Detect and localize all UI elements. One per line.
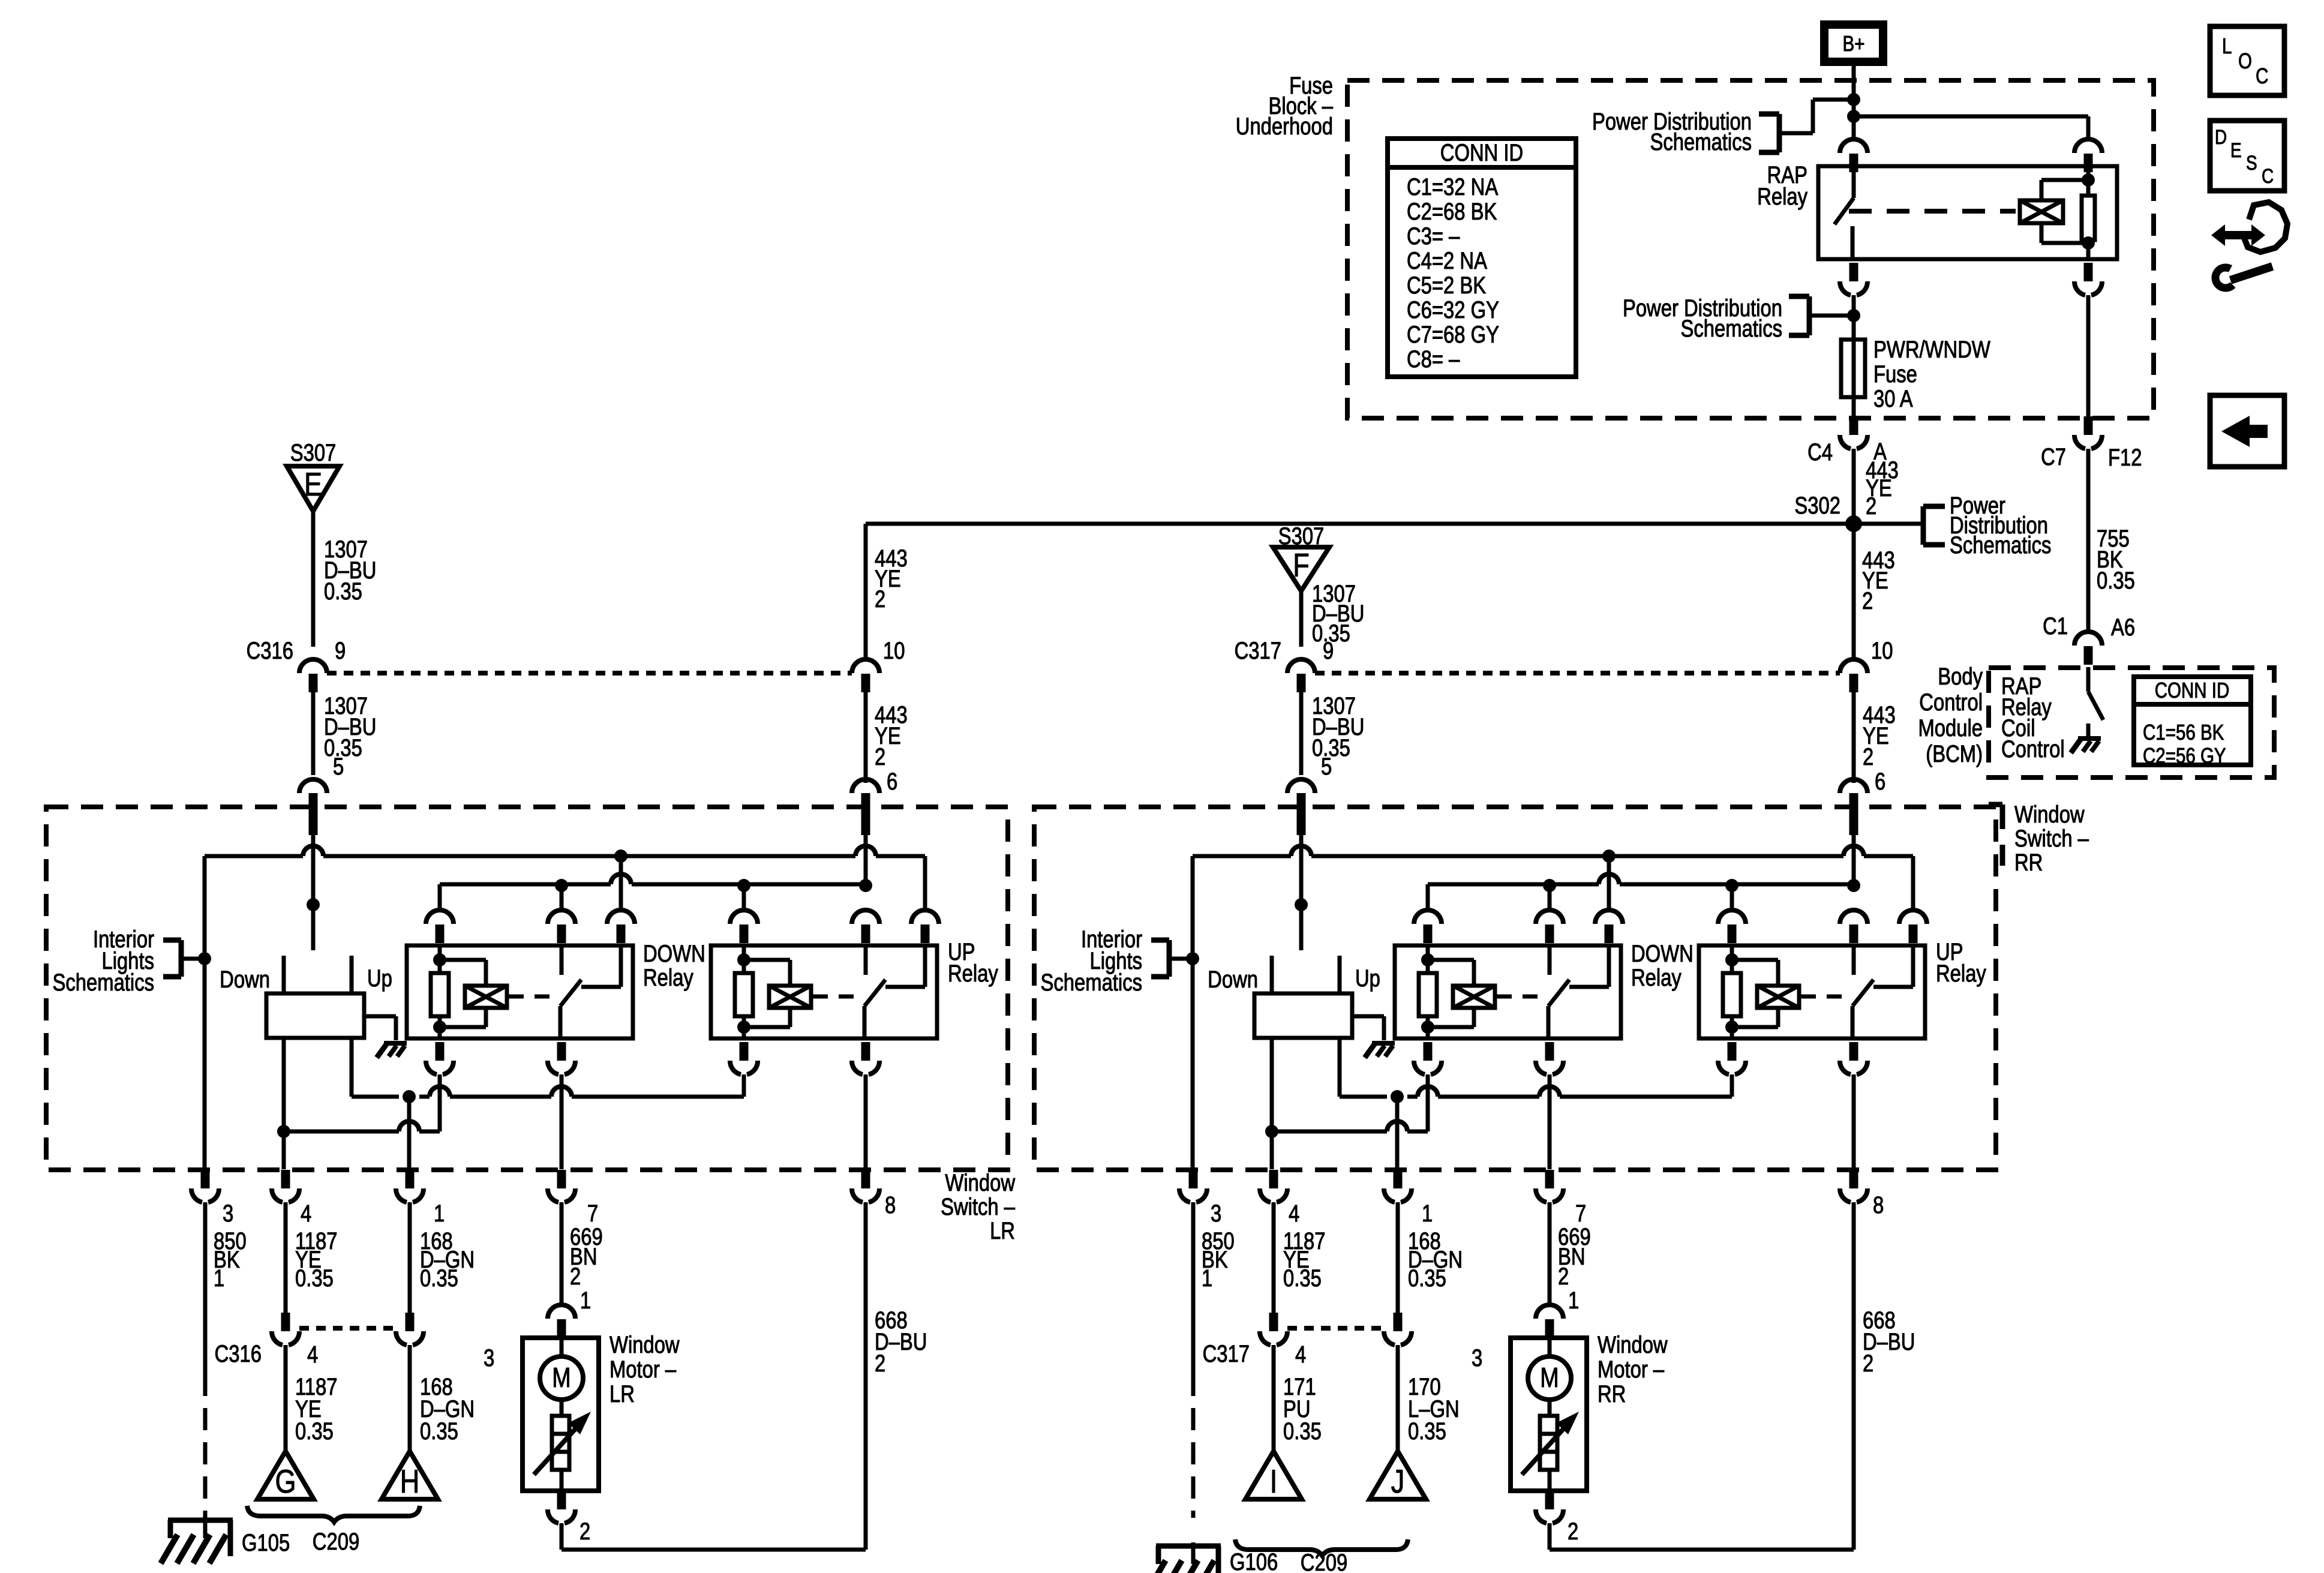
svg-text:A6: A6 — [2111, 614, 2135, 641]
svg-text:C2=68 BK: C2=68 BK — [1407, 198, 1497, 225]
wire: DOWN relay switch to pin 7 — [560, 1074, 564, 1169]
ground (rocker) — [384, 1041, 407, 1046]
rocker actuator — [1254, 993, 1352, 1038]
svg-text:2: 2 — [580, 1518, 590, 1545]
svg-text:Relay: Relay — [1757, 183, 1807, 210]
junction — [1421, 953, 1434, 966]
connector: UP relay switch pin (bottom) — [861, 1042, 870, 1061]
svg-text:Window: Window — [945, 1169, 1015, 1196]
RAP relay resistor — [2082, 196, 2095, 240]
switch contact: Up — [350, 956, 354, 993]
wire: power distribution tap — [1811, 100, 1815, 133]
crossover (no connection) — [399, 1121, 419, 1131]
wire 1307 D-BU — [1299, 692, 1304, 775]
wire to UP relay switch pin — [1911, 856, 1915, 910]
svg-text:2: 2 — [1863, 743, 1873, 770]
UP relay box — [711, 945, 937, 1038]
svg-text:1: 1 — [580, 1287, 591, 1314]
motor box — [523, 1338, 599, 1491]
motor armature M — [1528, 1356, 1571, 1400]
crossover (no connection) — [611, 874, 631, 884]
svg-text:L: L — [2222, 34, 2232, 58]
window switch - LR (dashed outline) — [46, 807, 1008, 1170]
svg-text:C: C — [2262, 164, 2274, 187]
svg-text:E: E — [2230, 139, 2242, 161]
connector: UP relay contact pin (top) — [1907, 909, 1919, 912]
svg-text:C4=2 NA: C4=2 NA — [1407, 247, 1487, 274]
junction — [433, 1020, 446, 1034]
junction — [277, 1125, 290, 1138]
splice S307 triangle F — [1273, 547, 1329, 591]
connector: DOWN relay coil pin (top) — [1422, 909, 1434, 912]
wire S302 to window switches (443 YE) — [866, 522, 1854, 526]
RAP relay box — [1818, 166, 2117, 259]
wire 1187 YE — [1272, 1202, 1276, 1313]
wire: UP relay switch to pin 8 — [864, 1074, 868, 1169]
connector C316 pin 10 — [860, 658, 872, 662]
svg-text:Module: Module — [1918, 715, 1983, 742]
svg-text:C3= –: C3= – — [1407, 223, 1460, 250]
connector: UP relay coil pin (top) — [1726, 909, 1738, 912]
splice S302 — [1845, 515, 1862, 532]
DOWN relay actuator (dashed) — [1497, 995, 1546, 999]
wire: ground leg (interior lights) — [203, 856, 207, 1169]
svg-text:C4: C4 — [1807, 439, 1833, 466]
crossover (no connection) — [1599, 874, 1619, 884]
crossover (no connection) — [1418, 1086, 1438, 1097]
connector C316 pin 9 — [307, 658, 319, 662]
junction — [1295, 898, 1308, 911]
connector C1 pin A6 (BCM) — [2082, 631, 2094, 634]
junction — [1391, 1090, 1404, 1103]
icon: navigation arrows — [2211, 224, 2265, 246]
connector pin 1 (window switch LR) — [406, 1170, 415, 1188]
bracket to power distribution schematics — [1777, 114, 1782, 152]
svg-text:LR: LR — [609, 1380, 635, 1407]
UP relay box — [1699, 945, 1925, 1038]
svg-text:Schematics: Schematics — [53, 969, 154, 996]
crossover (no connection) — [430, 1086, 450, 1097]
svg-text:3: 3 — [1211, 1200, 1221, 1227]
DOWN relay switch — [1548, 945, 1552, 975]
wire S302 to power distribution — [1854, 522, 1923, 526]
BCM dashed box (RAP relay coil control) — [1989, 668, 2274, 778]
junction — [1847, 93, 1860, 106]
fuse PWR/WNDW 30 A — [1841, 340, 1865, 397]
svg-text:C317: C317 — [1203, 1340, 1250, 1367]
crossover (no connection) — [1387, 1121, 1407, 1131]
connector C317 boundary (dotted) — [1315, 671, 1840, 676]
connector ID table (fuse block) — [1388, 139, 1576, 377]
connector C209 brace — [247, 1506, 420, 1522]
svg-text:1: 1 — [1568, 1287, 1579, 1314]
svg-text:H: H — [400, 1463, 420, 1500]
svg-text:Schematics: Schematics — [1950, 532, 2051, 559]
svg-text:10: 10 — [883, 637, 905, 664]
svg-text:C: C — [2256, 64, 2268, 88]
svg-text:0.35: 0.35 — [1408, 1418, 1446, 1445]
junction — [1265, 1125, 1278, 1138]
svg-text:DOWN: DOWN — [643, 940, 705, 967]
crossover (no connection) — [1843, 846, 1864, 856]
svg-text:2: 2 — [1863, 1350, 1873, 1377]
junction — [1186, 952, 1199, 965]
svg-text:0.35: 0.35 — [295, 1265, 334, 1292]
svg-text:1: 1 — [1422, 1200, 1433, 1227]
connector pin (RAP relay 30) — [1848, 138, 1860, 142]
connector C4 pin A — [1849, 416, 1858, 435]
wire: relay coil feed bus — [440, 882, 611, 887]
connector: UP relay switch pin (bottom) — [1849, 1042, 1858, 1061]
wire rocker to ground — [1352, 1014, 1384, 1019]
splice S307 triangle E — [287, 466, 340, 511]
connector: motor pin 1 — [556, 1304, 568, 1307]
svg-text:Window: Window — [1598, 1331, 1668, 1358]
ground (rocker) — [1372, 1041, 1395, 1046]
svg-text:Down: Down — [220, 966, 270, 993]
connector: DOWN relay switch pin (top) — [1544, 909, 1556, 912]
svg-text:S307: S307 — [290, 439, 337, 466]
DOWN relay coil (solenoid) — [1453, 986, 1495, 1008]
svg-text:M: M — [552, 1362, 571, 1392]
wire: Up leg — [350, 1038, 354, 1097]
DOWN relay box — [407, 945, 633, 1038]
connector pin (RAP relay 87) — [1849, 263, 1858, 281]
wire 850 BK (existing, dashed) — [1191, 1374, 1196, 1518]
connector: DOWN relay switch pin (bottom) — [557, 1042, 566, 1061]
UP relay resistor — [735, 973, 753, 1016]
wire to splice — [408, 1345, 412, 1451]
connector pin 3 (window switch LR) — [201, 1170, 210, 1188]
svg-text:PWR/WNDW: PWR/WNDW — [1873, 336, 1990, 363]
junction — [1847, 110, 1860, 123]
connector: DOWN relay coil pin (top) — [434, 909, 446, 912]
UP relay actuator (dashed) — [813, 995, 862, 999]
bracket to interior lights schematics — [179, 940, 184, 977]
svg-text:C1: C1 — [2043, 613, 2068, 640]
svg-text:0.35: 0.35 — [295, 1418, 334, 1445]
UP relay coil (solenoid) — [1757, 986, 1799, 1008]
RAP relay switch — [1852, 166, 1856, 198]
svg-text:LR: LR — [990, 1217, 1015, 1244]
icon: wrench — [2230, 266, 2272, 280]
svg-text:E: E — [304, 466, 322, 503]
svg-text:9: 9 — [1323, 637, 1334, 664]
junction — [1725, 879, 1739, 892]
connector: DOWN relay contact pin (top) — [1603, 909, 1615, 912]
wire 669 BN to motor — [1548, 1202, 1552, 1305]
svg-text:C209: C209 — [313, 1528, 359, 1555]
wire pin6 to relay bus — [1852, 835, 1856, 884]
svg-text:4: 4 — [307, 1341, 318, 1368]
connector: motor pin 2 — [557, 1491, 566, 1509]
svg-text:0.35: 0.35 — [2097, 567, 2135, 594]
wire 669 BN to motor — [560, 1202, 564, 1305]
crossover (no connection) — [1291, 846, 1311, 856]
pin 6 terminal — [1849, 793, 1858, 835]
junction — [2082, 236, 2095, 250]
connector C317 pin 3 terminal — [1394, 1313, 1403, 1329]
connector: motor pin 1 — [1544, 1304, 1556, 1307]
svg-text:4: 4 — [1289, 1200, 1299, 1227]
wire 443 YE — [1852, 692, 1856, 783]
crossover (no connection) — [551, 1086, 572, 1097]
wire RAP relay 85 to C7 — [2086, 295, 2091, 416]
junction — [403, 1090, 416, 1103]
svg-text:1: 1 — [1202, 1265, 1212, 1292]
ground G105 — [203, 1517, 208, 1538]
connector C316 boundary (dotted) — [327, 671, 852, 676]
junction — [2082, 173, 2095, 187]
svg-text:(BCM): (BCM) — [1926, 740, 1983, 767]
junction — [1725, 953, 1739, 966]
wire to splice — [284, 1345, 288, 1451]
junction — [614, 849, 627, 863]
junction — [859, 879, 872, 892]
svg-text:C8= –: C8= – — [1407, 346, 1460, 373]
rocker actuator — [266, 993, 364, 1038]
svg-text:G106: G106 — [1230, 1548, 1278, 1573]
svg-text:3: 3 — [223, 1200, 233, 1227]
svg-text:Relay: Relay — [643, 964, 693, 991]
icon: DESC box — [2210, 121, 2284, 191]
svg-text:Down: Down — [1208, 966, 1258, 993]
svg-text:CONN ID: CONN ID — [2155, 678, 2230, 702]
wire to RAP relay coil side — [1854, 115, 2088, 119]
wire: Down leg to pin 4 — [1270, 1038, 1274, 1169]
svg-text:Up: Up — [367, 965, 392, 992]
DOWN relay switch — [560, 945, 564, 975]
label: Window Switch - RR — [2000, 804, 2005, 829]
connector C316 pin 3 terminal — [406, 1313, 415, 1329]
svg-text:9: 9 — [335, 637, 346, 664]
svg-text:0.35: 0.35 — [420, 1418, 458, 1445]
ground G106 — [1191, 1542, 1196, 1564]
svg-text:3: 3 — [484, 1344, 494, 1371]
svg-text:F: F — [1293, 547, 1310, 584]
crossover (no connection) — [1539, 1086, 1560, 1097]
svg-text:Control: Control — [1919, 689, 1983, 716]
wire B+ to fuse block — [1852, 66, 1856, 100]
svg-text:30 A: 30 A — [1873, 385, 1913, 412]
wire: switch common feed bus — [1193, 854, 1291, 858]
wire: Down leg to pin 4 — [282, 1038, 286, 1169]
crossover (no connection) — [303, 846, 323, 856]
svg-text:M: M — [1540, 1362, 1559, 1392]
wire rocker to ground — [364, 1014, 396, 1019]
UP relay coil — [1730, 945, 1734, 960]
connector: UP relay coil pin (bottom) — [1728, 1042, 1737, 1061]
svg-text:6: 6 — [887, 768, 897, 795]
wire pin6 to relay bus — [864, 835, 868, 884]
svg-text:J: J — [1391, 1463, 1405, 1500]
svg-text:S: S — [2246, 151, 2257, 174]
wire: pin 1 leg — [407, 1097, 412, 1169]
wire 1307 D-BU from S307 F — [1299, 591, 1304, 647]
svg-text:2: 2 — [1568, 1518, 1578, 1545]
svg-text:Schematics: Schematics — [1650, 128, 1752, 155]
wire to splice — [1396, 1345, 1400, 1451]
svg-text:C7: C7 — [2041, 443, 2066, 470]
icon: back arrow box — [2210, 395, 2284, 467]
svg-text:Switch –: Switch – — [941, 1193, 1016, 1220]
svg-text:0.35: 0.35 — [324, 578, 362, 605]
splice triangle J — [1370, 1451, 1426, 1499]
wire: switch common feed bus — [205, 854, 303, 858]
motor box — [1511, 1338, 1587, 1491]
wire C7 to BCM C1 — [2086, 449, 2091, 632]
BCM driver switch — [2086, 667, 2091, 692]
wire: relay coil feed bus — [1428, 882, 1599, 887]
DOWN relay actuator (dashed) — [509, 995, 558, 999]
svg-text:4: 4 — [1295, 1341, 1306, 1368]
svg-text:C317: C317 — [1235, 637, 1281, 664]
connector pin 5 (window switch) — [1295, 778, 1307, 782]
wire to UP relay switch pin — [923, 856, 927, 910]
connector C316 boundary (dotted) — [299, 1326, 396, 1331]
svg-text:F12: F12 — [2108, 444, 2142, 471]
svg-text:Relay: Relay — [1631, 964, 1682, 991]
junction — [737, 953, 750, 966]
icon: LOC box — [2210, 26, 2284, 95]
svg-text:Body: Body — [1938, 663, 1983, 690]
svg-text:C209: C209 — [1301, 1549, 1347, 1573]
junction — [433, 953, 446, 966]
svg-text:0.35: 0.35 — [420, 1265, 458, 1292]
pin 5 terminal — [309, 793, 318, 835]
svg-text:Relay: Relay — [948, 960, 998, 987]
connector pin 4 (window switch RR) — [1269, 1170, 1278, 1188]
wire 168 D-GN — [408, 1202, 412, 1313]
junction — [1725, 1020, 1739, 1034]
svg-text:8: 8 — [1873, 1191, 1884, 1218]
wire 1307 D-BU from S307 E — [311, 511, 316, 647]
connector: UP relay switch pin (top) — [1848, 909, 1860, 912]
svg-text:I: I — [1270, 1463, 1278, 1500]
splice triangle H — [382, 1451, 438, 1499]
wire 443 YE — [864, 692, 868, 783]
junction S (power dist tap) — [1847, 309, 1860, 322]
svg-text:4: 4 — [301, 1200, 311, 1227]
svg-text:1: 1 — [434, 1200, 445, 1227]
wire to splice — [1272, 1345, 1276, 1451]
switch contact: Up — [1338, 956, 1342, 993]
wire S302 down to RR switch — [1852, 524, 1856, 660]
connector pin 4 (window switch LR) — [281, 1170, 290, 1188]
svg-text:2: 2 — [1866, 493, 1876, 520]
connector C317 boundary (dotted) — [1287, 1326, 1384, 1331]
connector pin 1 (window switch RR) — [1394, 1170, 1403, 1188]
connector: DOWN relay coil pin (bottom) — [1424, 1042, 1433, 1061]
wire: pin 1 leg — [1395, 1097, 1400, 1169]
connector ID table (BCM) — [2134, 677, 2251, 765]
battery feed terminal B+ — [1820, 20, 1887, 66]
connector pin 7 (window switch RR) — [1545, 1170, 1554, 1188]
svg-text:RR: RR — [1598, 1380, 1626, 1407]
junction — [555, 879, 568, 892]
svg-text:Motor –: Motor – — [609, 1356, 677, 1383]
junction — [737, 879, 750, 892]
svg-text:Schematics: Schematics — [1681, 315, 1782, 342]
svg-text:Window: Window — [609, 1331, 680, 1358]
svg-text:Relay: Relay — [1936, 960, 1986, 987]
svg-text:2: 2 — [875, 743, 885, 770]
svg-text:5: 5 — [333, 753, 344, 780]
UP relay coil (solenoid) — [769, 986, 811, 1008]
connector C317 pin 10 — [1848, 658, 1860, 662]
wire 168 D-GN — [1396, 1202, 1400, 1313]
connector: DOWN relay switch pin (top) — [556, 909, 568, 912]
connector pin (RAP relay 86) — [2082, 138, 2094, 142]
connector C7 pin F12 — [2084, 416, 2093, 435]
connector: DOWN relay switch pin (bottom) — [1545, 1042, 1554, 1061]
svg-text:C1=56 BK: C1=56 BK — [2143, 720, 2224, 744]
crossover (no connection) — [855, 846, 876, 856]
svg-text:Window: Window — [2014, 801, 2085, 828]
svg-text:CONN ID: CONN ID — [1440, 139, 1523, 166]
splice triangle G — [257, 1451, 314, 1499]
bracket to power distribution schematics — [1921, 506, 1926, 545]
wire RAP relay to fuse — [1852, 295, 1856, 340]
motor circuit breaker (self-resetting) — [552, 1416, 569, 1470]
wire pin5 to switch common — [1299, 835, 1304, 950]
connector C316 pin 4 terminal — [281, 1313, 290, 1329]
junction — [1543, 879, 1556, 892]
junction — [1421, 1020, 1434, 1034]
DOWN relay box — [1395, 945, 1621, 1038]
svg-text:C5=2 BK: C5=2 BK — [1407, 272, 1486, 299]
svg-text:5: 5 — [1321, 753, 1332, 780]
window switch - RR (dashed outline) — [1034, 807, 1996, 1170]
RAP relay actuator (dashed) — [1849, 209, 2016, 214]
motor circuit breaker (self-resetting) — [1540, 1416, 1557, 1470]
connector: UP relay coil pin (bottom) — [740, 1042, 749, 1061]
ground (BCM internal) — [2086, 724, 2091, 737]
wire 850 BK — [203, 1202, 208, 1374]
connector: DOWN relay contact pin (top) — [615, 909, 627, 912]
svg-text:DOWN: DOWN — [1631, 940, 1694, 967]
DOWN relay coil — [438, 945, 442, 960]
wire C4 to S302 — [1852, 449, 1856, 524]
svg-text:2: 2 — [570, 1263, 581, 1290]
wire down to RAP relay — [1852, 100, 1856, 139]
bracket to interior lights schematics — [1167, 940, 1172, 977]
wire pin5 to switch common — [311, 835, 316, 950]
junction — [307, 898, 320, 911]
wire 668 D-BU to motor — [864, 1202, 868, 1550]
wire: UP relay switch to pin 8 — [1852, 1074, 1856, 1169]
wire 850 BK (existing, dashed) — [203, 1374, 208, 1518]
junction — [1847, 879, 1860, 892]
svg-text:2: 2 — [875, 1350, 885, 1377]
wire: DOWN relay switch to pin 7 — [1548, 1074, 1552, 1169]
svg-text:10: 10 — [1871, 637, 1893, 664]
svg-text:2: 2 — [875, 586, 885, 613]
wire motor return — [560, 1523, 564, 1550]
svg-text:Schematics: Schematics — [1041, 969, 1142, 996]
RAP relay coil — [2020, 200, 2063, 223]
svg-text:Control: Control — [2001, 736, 2065, 763]
switch contact: Down — [282, 956, 286, 993]
svg-text:G105: G105 — [242, 1529, 290, 1556]
motor armature M — [540, 1356, 583, 1400]
wire: Up leg to UP relay coil return — [1340, 1095, 1387, 1099]
svg-text:2: 2 — [1862, 587, 1873, 614]
svg-text:Motor –: Motor – — [1598, 1356, 1665, 1383]
svg-text:2: 2 — [1558, 1263, 1569, 1290]
UP relay actuator (dashed) — [1801, 995, 1850, 999]
wire 668 D-BU to motor — [1852, 1202, 1856, 1550]
